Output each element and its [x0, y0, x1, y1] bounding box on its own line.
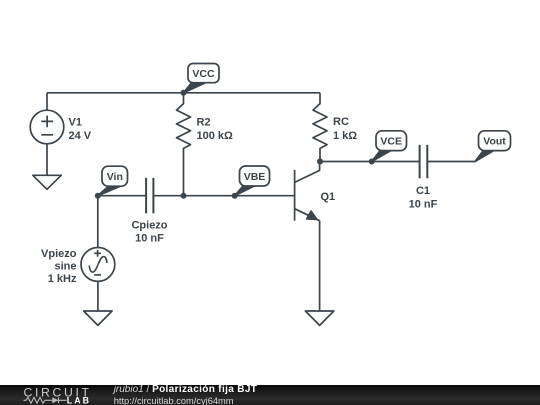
wire VCE row right segment	[428, 161, 475, 163]
ground below V1	[33, 175, 61, 189]
svg-text:RC: RC	[333, 116, 349, 128]
svg-text:1 kHz: 1 kHz	[48, 273, 77, 285]
flag Vout	[475, 131, 511, 162]
label Cpiezo 10 nF	[131, 220, 167, 245]
svg-text:24 V: 24 V	[69, 130, 92, 142]
label Vpiezo sine 1 kHz	[41, 248, 77, 285]
svg-text:LAB: LAB	[67, 395, 91, 405]
voltage source Vpiezo	[81, 248, 115, 282]
svg-text:1 kΩ: 1 kΩ	[333, 130, 357, 142]
svg-text:C1: C1	[416, 185, 430, 197]
label V1 24 V	[69, 117, 92, 143]
node Vin dot	[95, 193, 101, 199]
transistor Q1	[295, 162, 320, 221]
flag VCE	[372, 131, 407, 162]
wire Vpiezo bottom lead	[97, 281, 99, 311]
flag VBE	[235, 166, 270, 196]
wire top rail VCC	[47, 92, 320, 94]
wire Vpiezo top lead	[97, 196, 99, 248]
svg-text:Vin: Vin	[107, 171, 123, 183]
voltage source V1	[30, 110, 64, 144]
wire Q1 emitter lead	[319, 221, 321, 311]
svg-text:V1: V1	[69, 117, 82, 129]
node VCC junction dot	[181, 90, 187, 96]
ground below Vpiezo	[84, 311, 112, 325]
wire V1 bottom lead	[46, 144, 48, 176]
wire VCE row left segment	[320, 161, 419, 163]
wire mid rail right segment	[154, 195, 295, 197]
svg-text:Vpiezo: Vpiezo	[41, 248, 77, 260]
flag Vin	[98, 166, 128, 196]
node collector junction dot	[317, 159, 323, 165]
svg-text:Cpiezo: Cpiezo	[131, 220, 167, 232]
wire V1 top lead	[46, 93, 48, 110]
resistor RC	[313, 93, 327, 162]
resistor R2	[177, 93, 191, 196]
label RC 1 kOhm	[333, 116, 357, 142]
svg-text:Vout: Vout	[483, 136, 506, 148]
capacitor Cpiezo	[146, 178, 153, 214]
svg-text:VCE: VCE	[380, 136, 402, 148]
ground below Q1	[305, 311, 333, 325]
node VBE dot	[232, 193, 238, 199]
svg-text:Q1: Q1	[321, 191, 336, 203]
label C1 10 nF	[409, 185, 438, 210]
capacitor C1	[420, 145, 428, 179]
svg-text:R2: R2	[197, 117, 211, 129]
svg-text:10 nF: 10 nF	[409, 199, 438, 211]
svg-text:VBE: VBE	[244, 171, 266, 183]
svg-text:VCC: VCC	[192, 68, 215, 80]
flag VCC	[184, 64, 220, 93]
svg-text:10 nF: 10 nF	[135, 233, 164, 245]
node VCE dot	[369, 159, 375, 165]
wire mid rail left segment	[98, 195, 146, 197]
svg-text:sine: sine	[54, 261, 76, 273]
svg-text:100 kΩ: 100 kΩ	[197, 130, 234, 142]
footer bar	[0, 385, 540, 405]
logo CircuitLab	[0, 385, 100, 405]
label R2 100 kOhm	[197, 117, 234, 143]
node R2 bottom junction dot	[181, 193, 187, 199]
footer credit text	[114, 385, 258, 405]
